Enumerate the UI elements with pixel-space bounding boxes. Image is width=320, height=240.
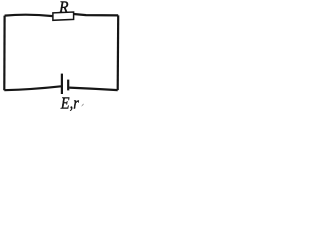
wire right vertical bbox=[117, 15, 120, 90]
wire top-left segment bbox=[5, 15, 53, 16]
wire top-right segment bbox=[74, 14, 119, 15]
wire bottom-left segment bbox=[4, 86, 61, 90]
svg-text:E,r: E,r bbox=[60, 94, 80, 112]
stray scan speck right of r bbox=[81, 104, 84, 107]
battery E short plate bbox=[67, 80, 69, 91]
battery E long plate bbox=[61, 74, 63, 94]
wire bottom-right segment bbox=[69, 88, 118, 91]
wire left vertical bbox=[3, 16, 5, 91]
resistor R1 box bbox=[53, 12, 74, 20]
svg-text:R: R bbox=[58, 0, 69, 17]
